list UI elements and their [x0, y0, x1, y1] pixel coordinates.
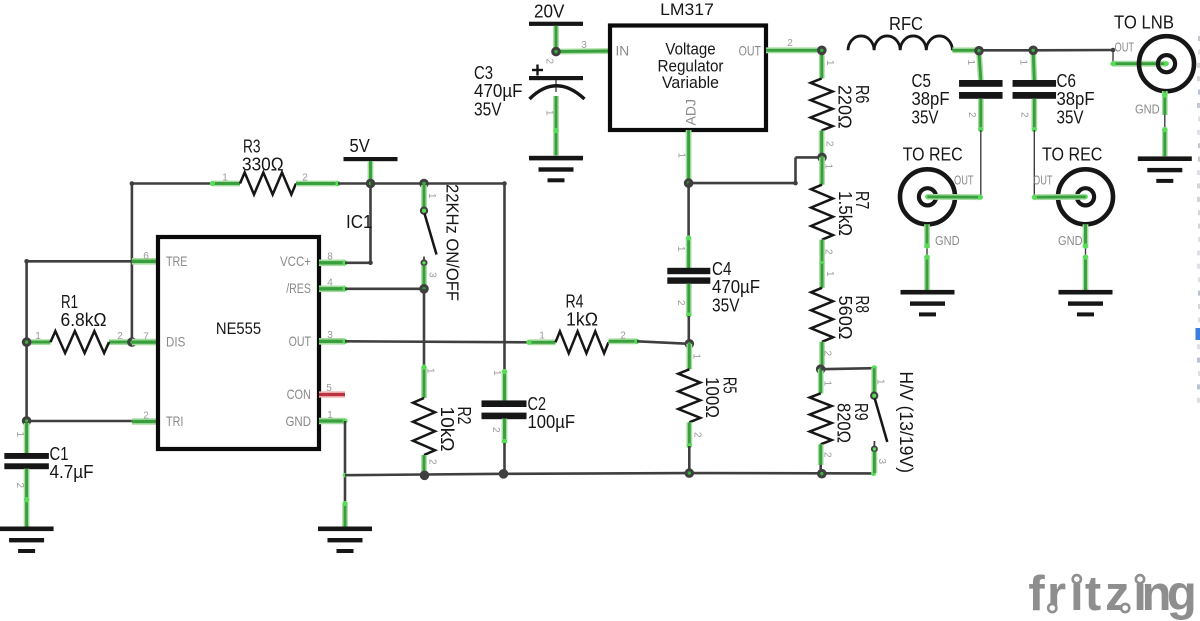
svg-text:1: 1 [426, 193, 437, 199]
svg-text:Variable: Variable [662, 74, 719, 92]
svg-text:1: 1 [491, 370, 502, 376]
svg-text:4.7µF: 4.7µF [50, 461, 94, 482]
svg-text:1: 1 [965, 60, 976, 66]
svg-text:3: 3 [427, 272, 438, 278]
svg-text:VCC+: VCC+ [280, 253, 311, 269]
svg-text:1: 1 [823, 164, 834, 170]
svg-text:1: 1 [824, 271, 835, 277]
svg-text:OUT: OUT [954, 173, 974, 188]
svg-text:20V: 20V [534, 0, 565, 21]
svg-text:OUT: OUT [739, 42, 762, 58]
svg-text:22KHz ON/OFF: 22KHz ON/OFF [443, 184, 463, 301]
svg-text:35V: 35V [912, 106, 940, 127]
svg-text:330Ω: 330Ω [242, 153, 284, 174]
svg-text:OUT: OUT [1033, 173, 1053, 188]
svg-text:35V: 35V [1057, 106, 1085, 127]
svg-text:R8: R8 [852, 296, 872, 314]
svg-text:1: 1 [539, 331, 545, 342]
svg-text:1: 1 [822, 381, 833, 387]
svg-text:1kΩ: 1kΩ [566, 309, 598, 330]
svg-text:/RES: /RES [286, 280, 311, 296]
svg-text:1: 1 [824, 60, 835, 66]
svg-text:10kΩ: 10kΩ [437, 407, 457, 452]
svg-text:2: 2 [675, 300, 686, 306]
svg-text:100µF: 100µF [528, 411, 576, 432]
svg-text:2: 2 [620, 331, 626, 342]
svg-text:1: 1 [35, 331, 41, 342]
svg-text:35V: 35V [474, 98, 502, 119]
svg-text:2: 2 [490, 427, 501, 433]
svg-text:IN: IN [616, 42, 630, 58]
svg-text:2: 2 [302, 173, 308, 184]
svg-text:f: f [1028, 567, 1045, 621]
svg-text:OUT: OUT [289, 333, 312, 349]
svg-text:2: 2 [1019, 112, 1030, 118]
svg-text:Voltage: Voltage [665, 41, 715, 59]
svg-text:RFC: RFC [889, 13, 923, 34]
svg-text:220Ω: 220Ω [834, 85, 854, 129]
svg-text:3: 3 [876, 459, 887, 465]
svg-text:1: 1 [875, 379, 886, 385]
svg-text:2: 2 [692, 432, 703, 438]
svg-text:820Ω: 820Ω [834, 403, 854, 443]
svg-text:2: 2 [823, 249, 834, 255]
svg-text:2: 2 [822, 452, 833, 458]
svg-text:6: 6 [143, 251, 149, 262]
svg-text:1: 1 [327, 410, 333, 421]
svg-text:2: 2 [822, 351, 833, 357]
svg-text:2: 2 [966, 112, 977, 118]
svg-text:NE555: NE555 [216, 320, 261, 338]
svg-text:2: 2 [544, 59, 555, 65]
svg-text:2: 2 [117, 331, 123, 342]
svg-text:OUT: OUT [1115, 40, 1135, 55]
svg-text:GND: GND [935, 233, 960, 248]
svg-text:TO REC: TO REC [1042, 143, 1102, 164]
svg-text:1: 1 [691, 354, 702, 360]
svg-text:GND: GND [286, 413, 312, 429]
svg-text:5V: 5V [350, 135, 371, 156]
svg-text:1: 1 [544, 110, 555, 116]
svg-text:1.5kΩ: 1.5kΩ [835, 191, 855, 236]
svg-text:TRI: TRI [166, 413, 183, 429]
svg-text:R9: R9 [851, 403, 871, 421]
svg-text:Regulator: Regulator [658, 58, 724, 76]
svg-text:r: r [1047, 567, 1066, 621]
svg-text:1: 1 [425, 368, 436, 374]
svg-text:TRE: TRE [166, 253, 187, 269]
svg-text:R6: R6 [852, 85, 872, 103]
svg-text:1: 1 [675, 246, 686, 252]
svg-text:LM317: LM317 [660, 0, 714, 19]
svg-text:R7: R7 [852, 191, 872, 209]
svg-text:1: 1 [14, 432, 25, 438]
svg-text:CON: CON [287, 386, 311, 402]
svg-text:7: 7 [143, 332, 149, 343]
svg-text:5: 5 [326, 383, 332, 394]
svg-text:2: 2 [824, 141, 835, 147]
svg-text:1: 1 [222, 173, 228, 184]
svg-text:GND: GND [1058, 233, 1083, 248]
svg-text:ADJ: ADJ [683, 99, 699, 125]
svg-text:3: 3 [327, 330, 333, 341]
svg-text:H/V (13/19V): H/V (13/19V) [896, 371, 916, 473]
svg-text:8: 8 [327, 252, 333, 263]
svg-text:6.8kΩ: 6.8kΩ [61, 309, 107, 330]
svg-text:IC1: IC1 [346, 211, 373, 232]
svg-text:TO LNB: TO LNB [1114, 12, 1174, 33]
svg-text:GND: GND [1135, 102, 1160, 117]
svg-text:2: 2 [14, 483, 25, 489]
svg-text:R2: R2 [454, 407, 474, 425]
svg-text:2: 2 [427, 459, 438, 465]
svg-text:560Ω: 560Ω [835, 296, 855, 340]
svg-text:4: 4 [327, 278, 333, 289]
svg-text:3: 3 [581, 40, 587, 51]
svg-text:2: 2 [143, 411, 149, 422]
svg-text:1: 1 [1018, 60, 1029, 66]
svg-text:100Ω: 100Ω [702, 377, 722, 418]
svg-text:g: g [1167, 567, 1197, 621]
svg-text:R5: R5 [720, 377, 740, 394]
svg-text:2: 2 [787, 38, 793, 49]
svg-text:TO REC: TO REC [903, 143, 963, 164]
svg-text:t: t [1085, 567, 1101, 621]
svg-text:1: 1 [676, 153, 687, 159]
svg-text:DIS: DIS [166, 334, 185, 350]
svg-text:35V: 35V [712, 294, 740, 315]
